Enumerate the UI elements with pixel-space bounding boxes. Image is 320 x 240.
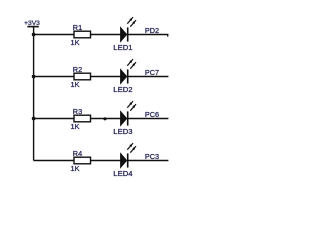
- wire end tick row 1: [167, 35, 169, 37]
- LED LED2 emission arrow 2: [130, 62, 136, 69]
- svg-text:1K: 1K: [71, 38, 80, 47]
- svg-text:LED3: LED3: [113, 127, 132, 136]
- wire bus to R2: [34, 76, 74, 78]
- wire bus to R3: [34, 118, 74, 120]
- junction dot row 2: [32, 75, 36, 79]
- svg-text:LED2: LED2: [113, 85, 132, 94]
- svg-text:1K: 1K: [71, 122, 80, 131]
- svg-text:R2: R2: [73, 65, 82, 74]
- svg-text:+3V3: +3V3: [24, 20, 40, 27]
- LED LED4 cathode bar: [127, 153, 129, 167]
- LED LED4 emission arrow 2: [130, 146, 136, 153]
- wire LED2 to net PC7: [128, 76, 169, 78]
- LED LED1 emission arrow 1: [127, 17, 133, 24]
- LED LED4 anode triangle: [121, 154, 127, 167]
- wire LED1 to net PD2: [128, 34, 169, 36]
- LED LED1 emission arrow 2: [130, 20, 136, 27]
- LED LED2 emission arrow 1: [127, 59, 133, 66]
- svg-text:R1: R1: [73, 23, 82, 32]
- svg-text:LED1: LED1: [113, 43, 132, 52]
- wire bus to R1: [34, 34, 74, 36]
- LED LED4 emission arrow 1: [127, 143, 133, 150]
- resistor R2: [74, 73, 91, 80]
- LED LED2 cathode bar: [127, 69, 129, 83]
- svg-text:PD2: PD2: [145, 26, 159, 35]
- resistor R4: [74, 157, 91, 164]
- wire LED4 to net PC3: [128, 160, 169, 162]
- LED LED3 emission arrow 1: [127, 101, 133, 108]
- LED LED3 emission arrow 2: [130, 104, 136, 111]
- svg-text:1K: 1K: [71, 164, 80, 173]
- wire R3 to LED3: [91, 118, 121, 120]
- LED LED2 anode triangle: [121, 70, 127, 83]
- wire LED3 to net PC6: [128, 118, 169, 120]
- svg-text:PC3: PC3: [145, 152, 159, 161]
- wire R4 to LED4: [91, 160, 121, 162]
- LED LED3 anode triangle: [121, 112, 127, 125]
- junction dot on wire row 3: [103, 117, 106, 120]
- svg-text:1K: 1K: [71, 80, 80, 89]
- LED LED1 anode triangle: [121, 28, 127, 41]
- svg-text:PC7: PC7: [145, 68, 159, 77]
- svg-text:PC6: PC6: [145, 110, 159, 119]
- wire vertical power bus: [33, 27, 35, 161]
- svg-text:R4: R4: [73, 149, 82, 158]
- junction dot row 3: [32, 117, 36, 121]
- power bar symbol: [27, 26, 39, 28]
- junction dot row 1: [32, 33, 36, 37]
- resistor R3: [74, 115, 91, 122]
- svg-text:R3: R3: [73, 107, 82, 116]
- wire R1 to LED1: [91, 34, 121, 36]
- svg-text:LED4: LED4: [113, 169, 133, 178]
- LED LED3 cathode bar: [127, 111, 129, 125]
- LED LED1 cathode bar: [127, 27, 129, 41]
- resistor R1: [74, 31, 91, 38]
- wire R2 to LED2: [91, 76, 121, 78]
- wire bus to R4: [34, 160, 74, 162]
